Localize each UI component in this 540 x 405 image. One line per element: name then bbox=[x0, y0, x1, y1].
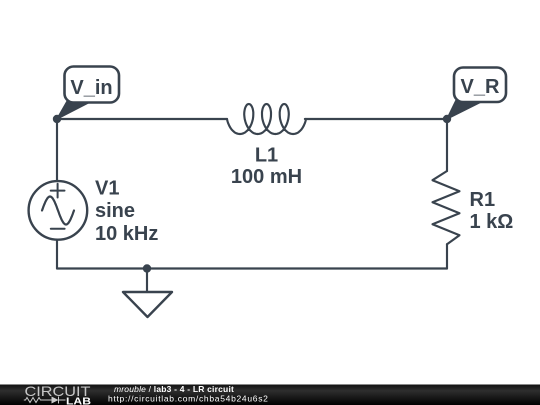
V_R flag pointer bbox=[447, 101, 483, 120]
svg-text:V_R: V_R bbox=[461, 76, 500, 98]
V1 plus sign bbox=[51, 184, 65, 198]
svg-text:100 mH: 100 mH bbox=[231, 166, 302, 188]
svg-text:V1: V1 bbox=[95, 177, 119, 199]
wire left: node V_in down to V1 top bbox=[56, 119, 58, 180]
ground symbol triangle bbox=[123, 292, 172, 317]
footer bar bbox=[0, 385, 540, 405]
svg-text:V_in: V_in bbox=[70, 77, 112, 99]
wire R1 bottom to rail bbox=[446, 244, 448, 268]
wire top-left: node V_in to inductor bbox=[57, 118, 227, 120]
inductor L1 bbox=[227, 104, 306, 134]
svg-text:http://circuitlab.com/chba54b2: http://circuitlab.com/chba54b24u6s2 bbox=[108, 393, 269, 403]
wire V1 bottom to bottom rail bbox=[56, 241, 58, 269]
V_in flag box bbox=[65, 67, 120, 103]
logo doodle: resistor zigzag wire and diode bbox=[24, 397, 66, 404]
svg-text:LAB: LAB bbox=[66, 395, 91, 405]
wire bottom rail bbox=[57, 267, 447, 269]
ground stub wire bbox=[146, 269, 148, 293]
wire right: node V_R down to R1 bbox=[446, 119, 448, 171]
node V_R junction dot bbox=[443, 115, 451, 123]
junction dot at ground bbox=[143, 264, 151, 272]
svg-text:10 kHz: 10 kHz bbox=[95, 223, 158, 245]
node V_in junction dot bbox=[53, 115, 61, 123]
svg-text:sine: sine bbox=[95, 200, 135, 222]
V1 minus sign bbox=[51, 228, 65, 230]
V_R flag box bbox=[454, 68, 506, 103]
svg-text:1 kΩ: 1 kΩ bbox=[470, 211, 514, 233]
resistor R1 zigzag bbox=[433, 171, 460, 244]
svg-text:R1: R1 bbox=[470, 189, 496, 211]
logo diode triangle bbox=[52, 397, 59, 404]
svg-text:L1: L1 bbox=[255, 144, 278, 166]
V1 sine symbol bbox=[42, 197, 74, 225]
wire top-right: inductor to node V_R bbox=[305, 118, 447, 120]
V_in flag pointer bbox=[57, 102, 91, 120]
voltage source V1 circle bbox=[29, 181, 88, 240]
